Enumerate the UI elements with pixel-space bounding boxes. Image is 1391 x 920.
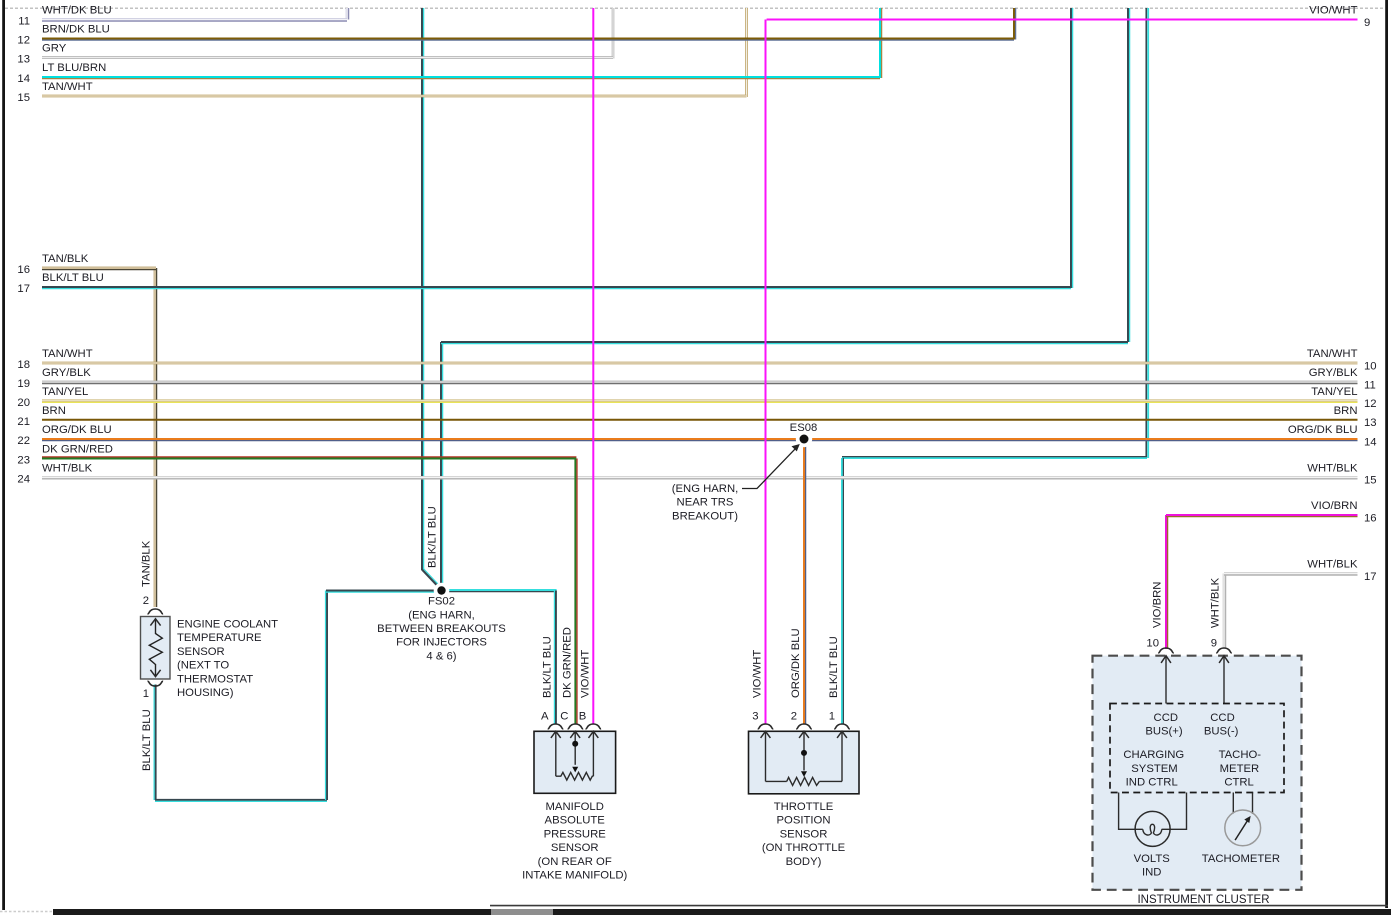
wire FS02 diagonal	[422, 569, 441, 589]
svg-text:A: A	[541, 711, 549, 723]
svg-text:3: 3	[752, 711, 758, 723]
svg-text:PRESSURE: PRESSURE	[544, 828, 607, 840]
label THROTTLE POSITION SENSOR	[762, 801, 846, 868]
wire VIO/WHT drop to TPS pin 3	[765, 20, 767, 725]
svg-text:ORG/DK BLU: ORG/DK BLU	[1288, 424, 1358, 436]
gauge TACHOMETER	[1225, 810, 1261, 846]
svg-text:(ON THROTTLE: (ON THROTTLE	[762, 842, 846, 854]
svg-text:BRN: BRN	[42, 405, 66, 417]
svg-text:23: 23	[17, 455, 30, 467]
svg-text:CHARGING: CHARGING	[1123, 749, 1184, 761]
wire row 13 GRY	[42, 56, 613, 59]
svg-text:ENGINE COOLANT: ENGINE COOLANT	[177, 619, 278, 631]
wire row 15 TAN/WHT	[42, 95, 747, 98]
svg-text:9: 9	[1211, 638, 1217, 650]
svg-text:TAN/WHT: TAN/WHT	[42, 348, 93, 360]
svg-text:B: B	[579, 711, 587, 723]
svg-text:21: 21	[17, 416, 30, 428]
wire TPS pin1 riser x1147	[1146, 8, 1148, 458]
wire row 17 BLK/LT BLU	[42, 287, 1071, 289]
svg-text:11: 11	[1364, 379, 1376, 391]
svg-text:20: 20	[17, 397, 30, 409]
svg-text:LT BLU/BRN: LT BLU/BRN	[42, 62, 106, 74]
pin 9 cluster	[1211, 638, 1217, 650]
pin 10 cluster	[1146, 638, 1159, 650]
svg-text:16: 16	[1364, 512, 1377, 524]
label INSTRUMENT CLUSTER	[1137, 894, 1269, 906]
svg-text:SYSTEM: SYSTEM	[1131, 763, 1177, 775]
wire volts lamp right lead	[1162, 793, 1187, 830]
connector arcs TPS	[758, 724, 850, 729]
svg-text:DK GRN/RED: DK GRN/RED	[42, 444, 113, 456]
svg-text:2: 2	[143, 595, 149, 607]
wire row 16 VIO/BRN	[1166, 515, 1358, 517]
svg-text:HOUSING): HOUSING)	[177, 687, 234, 699]
svg-text:BUS(-): BUS(-)	[1204, 726, 1239, 738]
svg-text:SENSOR: SENSOR	[551, 842, 599, 854]
border right	[1385, 0, 1388, 908]
ES08 leader arrow	[672, 444, 800, 522]
svg-text:TAN/YEL: TAN/YEL	[42, 386, 88, 398]
svg-text:TAN/BLK: TAN/BLK	[141, 540, 153, 587]
svg-text:TAN/YEL: TAN/YEL	[1311, 386, 1357, 398]
svg-text:11: 11	[18, 16, 30, 28]
wire ECT pin1 run y800	[155, 800, 327, 802]
wire FS02 branch riser x1128	[1128, 8, 1130, 342]
label CCD BUS(-)	[1204, 712, 1239, 738]
wire row 17r WHT/BLK	[1224, 574, 1358, 576]
label TACHO-METER CTRL	[1219, 749, 1262, 788]
svg-text:INTAKE MANIFOLD): INTAKE MANIFOLD)	[522, 870, 627, 882]
wire volts lamp left lead	[1119, 793, 1143, 830]
svg-text:1: 1	[143, 688, 149, 700]
pin B MAP	[579, 711, 587, 723]
svg-text:16: 16	[17, 264, 30, 276]
wire row 18 TAN/WHT	[42, 362, 1358, 365]
svg-text:18: 18	[17, 359, 30, 371]
pin A MAP	[541, 711, 549, 723]
svg-text:14: 14	[17, 73, 30, 85]
svg-text:BLK/LT BLU: BLK/LT BLU	[427, 506, 439, 568]
svg-text:(ENG HARN,: (ENG HARN,	[672, 483, 739, 495]
svg-text:IND: IND	[1142, 867, 1161, 879]
wire MAP pin A drop x555.5	[554, 591, 556, 725]
connector arcs cluster	[1158, 648, 1232, 653]
svg-text:MANIFOLD: MANIFOLD	[546, 801, 604, 813]
svg-text:4 & 6): 4 & 6)	[426, 650, 456, 662]
wire row 16 TAN/BLK	[42, 268, 156, 270]
svg-text:ABSOLUTE: ABSOLUTE	[545, 815, 606, 827]
svg-text:VOLTS: VOLTS	[1134, 853, 1171, 865]
svg-text:ORG/DK BLU: ORG/DK BLU	[42, 424, 112, 436]
wire TPS pin1 drop x842	[842, 458, 843, 724]
wire row 15 riser	[745, 8, 748, 97]
wire row 22 ORG/DK BLU	[42, 439, 1358, 441]
svg-text:WHT/BLK: WHT/BLK	[1210, 577, 1222, 628]
svg-text:INSTRUMENT CLUSTER: INSTRUMENT CLUSTER	[1137, 894, 1269, 906]
svg-text:DK GRN/RED: DK GRN/RED	[561, 627, 573, 698]
svg-text:15: 15	[17, 92, 30, 104]
label CHARGING SYSTEM IND CTRL	[1123, 749, 1184, 788]
svg-text:BLK/LT BLU: BLK/LT BLU	[42, 272, 104, 284]
pin 2 ECT	[143, 595, 149, 607]
wire FS02 left branch y590	[326, 591, 442, 593]
svg-text:13: 13	[17, 54, 30, 66]
wire row 23 DK GRN/RED	[42, 457, 576, 459]
svg-text:(ON REAR OF: (ON REAR OF	[538, 856, 612, 868]
wire ECT pin1 drop	[154, 685, 156, 801]
wire DK GRN/RED drop to MAP pin C	[575, 459, 577, 725]
svg-text:GRY: GRY	[42, 43, 67, 55]
wire row 21 BRN	[42, 419, 1358, 421]
svg-text:GRY/BLK: GRY/BLK	[1309, 367, 1358, 379]
connector arc ECT pin 2	[148, 609, 164, 614]
svg-text:TEMPERATURE: TEMPERATURE	[177, 632, 262, 644]
svg-text:THROTTLE: THROTTLE	[774, 801, 834, 813]
border left	[2, 0, 5, 910]
svg-text:VIO/WHT: VIO/WHT	[752, 650, 764, 698]
svg-text:THERMOSTAT: THERMOSTAT	[177, 673, 253, 685]
svg-text:2: 2	[791, 711, 797, 723]
svg-text:TAN/WHT: TAN/WHT	[42, 81, 93, 93]
svg-text:WHT/BLK: WHT/BLK	[1307, 463, 1358, 475]
engine coolant temperature sensor box	[141, 617, 171, 680]
wire FS02 right branch y590	[442, 590, 557, 592]
svg-text:BLK/LT BLU: BLK/LT BLU	[828, 636, 840, 698]
svg-text:FS02: FS02	[428, 596, 455, 608]
svg-text:BUS(+): BUS(+)	[1145, 726, 1183, 738]
svg-text:WHT/BLK: WHT/BLK	[1307, 559, 1358, 571]
wire row 11 riser	[347, 8, 349, 20]
wire row 17 riser	[1071, 8, 1073, 288]
wire row 11 WHT/DK BLU	[42, 20, 347, 22]
svg-text:10: 10	[1146, 638, 1159, 650]
connector arcs MAP	[548, 724, 601, 729]
svg-text:IND CTRL: IND CTRL	[1126, 777, 1178, 789]
wire ECT pin1 riser x327	[326, 591, 328, 801]
wire row 13 riser	[612, 8, 615, 59]
svg-text:BODY): BODY)	[786, 856, 822, 868]
wire row 9 VIO/WHT	[767, 19, 1358, 21]
svg-text:BRN: BRN	[1334, 405, 1358, 417]
pin 1 TPS	[829, 711, 835, 723]
pin C MAP	[560, 711, 568, 723]
svg-text:POSITION: POSITION	[777, 815, 831, 827]
label MANIFOLD ABSOLUTE PRESSURE SENSOR	[522, 801, 627, 882]
svg-text:19: 19	[17, 378, 30, 390]
svg-text:17: 17	[17, 283, 30, 295]
pin 3 TPS	[752, 711, 758, 723]
svg-text:CTRL: CTRL	[1224, 777, 1254, 789]
node FS02	[377, 583, 506, 663]
border top dotted	[5, 7, 1385, 9]
svg-text:SENSOR: SENSOR	[177, 646, 225, 658]
wire VIO/BRN drop to cluster pin 10	[1166, 515, 1168, 649]
label TACHOMETER	[1202, 853, 1280, 865]
svg-text:BRN/DK BLU: BRN/DK BLU	[42, 24, 110, 36]
lamp VOLTS IND	[1135, 811, 1170, 846]
svg-text:TACHO-: TACHO-	[1219, 749, 1262, 761]
wire row 24 WHT/BLK	[42, 477, 1358, 479]
svg-text:VIO/BRN: VIO/BRN	[1311, 500, 1357, 512]
wire row 19 GRY/BLK	[42, 382, 1358, 384]
svg-text:22: 22	[17, 435, 30, 447]
svg-text:FOR INJECTORS: FOR INJECTORS	[396, 637, 487, 649]
wire TAN/BLK drop to ECT pin 2	[155, 268, 157, 607]
svg-text:(ENG HARN,: (ENG HARN,	[408, 609, 475, 621]
svg-text:BETWEEN BREAKOUTS: BETWEEN BREAKOUTS	[377, 623, 506, 635]
bottom bar	[0, 906, 1391, 915]
svg-text:VIO/BRN: VIO/BRN	[1152, 582, 1164, 628]
pin 1 ECT	[143, 688, 149, 700]
svg-text:TAN/BLK: TAN/BLK	[42, 253, 89, 265]
wire VIO/WHT drop to MAP pin B	[592, 8, 594, 724]
wire ORG/DK BLU drop to TPS pin 2	[804, 439, 806, 724]
svg-text:BLK/LT BLU: BLK/LT BLU	[141, 709, 153, 771]
svg-text:10: 10	[1364, 360, 1377, 372]
svg-text:ES08: ES08	[790, 422, 818, 434]
svg-text:METER: METER	[1220, 763, 1260, 775]
svg-text:WHT/DK BLU: WHT/DK BLU	[42, 5, 112, 17]
svg-text:14: 14	[1364, 436, 1377, 448]
label VOLTS IND	[1134, 853, 1171, 879]
svg-text:12: 12	[17, 35, 30, 47]
wire tachometer leads	[1233, 793, 1252, 814]
wire row 14 LT BLU/BRN	[42, 77, 880, 79]
wire row 20 TAN/YEL	[42, 401, 1358, 403]
svg-text:BLK/LT BLU: BLK/LT BLU	[542, 636, 554, 698]
svg-text:TACHOMETER: TACHOMETER	[1202, 853, 1280, 865]
svg-text:CCD: CCD	[1210, 712, 1234, 724]
svg-text:NEAR TRS: NEAR TRS	[677, 497, 734, 509]
wire FS02 branch up	[441, 342, 443, 589]
svg-text:15: 15	[1364, 475, 1377, 487]
wire WHT/BLK drop to cluster pin 9	[1224, 574, 1226, 650]
connector arc ECT pin 1	[148, 681, 164, 686]
svg-text:13: 13	[1364, 417, 1377, 429]
instrument cluster box	[1093, 656, 1302, 890]
svg-text:VIO/WHT: VIO/WHT	[1309, 5, 1357, 17]
wire TPS pin1 across y458	[842, 457, 1147, 458]
cluster entry arrow pin 10	[1161, 656, 1171, 704]
svg-text:17: 17	[1364, 571, 1377, 583]
svg-text:1: 1	[829, 711, 835, 723]
wire row 12 BRN/DK BLU	[42, 39, 1014, 41]
svg-text:SENSOR: SENSOR	[780, 828, 828, 840]
svg-text:WHT/BLK: WHT/BLK	[42, 463, 93, 475]
svg-text:VIO/WHT: VIO/WHT	[579, 650, 591, 698]
svg-text:12: 12	[1364, 398, 1377, 410]
cluster entry arrow pin 9	[1219, 656, 1229, 704]
node ES08	[790, 422, 818, 447]
svg-text:BREAKOUT): BREAKOUT)	[672, 510, 738, 522]
pin 2 TPS	[791, 711, 797, 723]
label CCD BUS(+)	[1145, 712, 1183, 738]
label ENGINE COOLANT TEMPERATURE SENSOR	[177, 619, 278, 700]
wire FS02 branch across y342	[441, 342, 1128, 344]
wire row 14 riser	[880, 8, 882, 78]
svg-text:C: C	[560, 711, 568, 723]
svg-text:9: 9	[1364, 17, 1370, 29]
svg-text:CCD: CCD	[1154, 712, 1178, 724]
manifold absolute pressure sensor box	[534, 731, 616, 793]
svg-text:ORG/DK BLU: ORG/DK BLU	[790, 628, 802, 698]
svg-text:(NEXT TO: (NEXT TO	[177, 660, 229, 672]
wire BLK/LT BLU drop to FS02	[422, 8, 424, 570]
svg-text:TAN/WHT: TAN/WHT	[1307, 348, 1358, 360]
svg-text:24: 24	[17, 474, 30, 486]
cluster inner module box	[1110, 704, 1284, 793]
svg-text:GRY/BLK: GRY/BLK	[42, 367, 91, 379]
wire row 12 riser	[1014, 8, 1016, 40]
throttle position sensor box	[749, 731, 860, 794]
